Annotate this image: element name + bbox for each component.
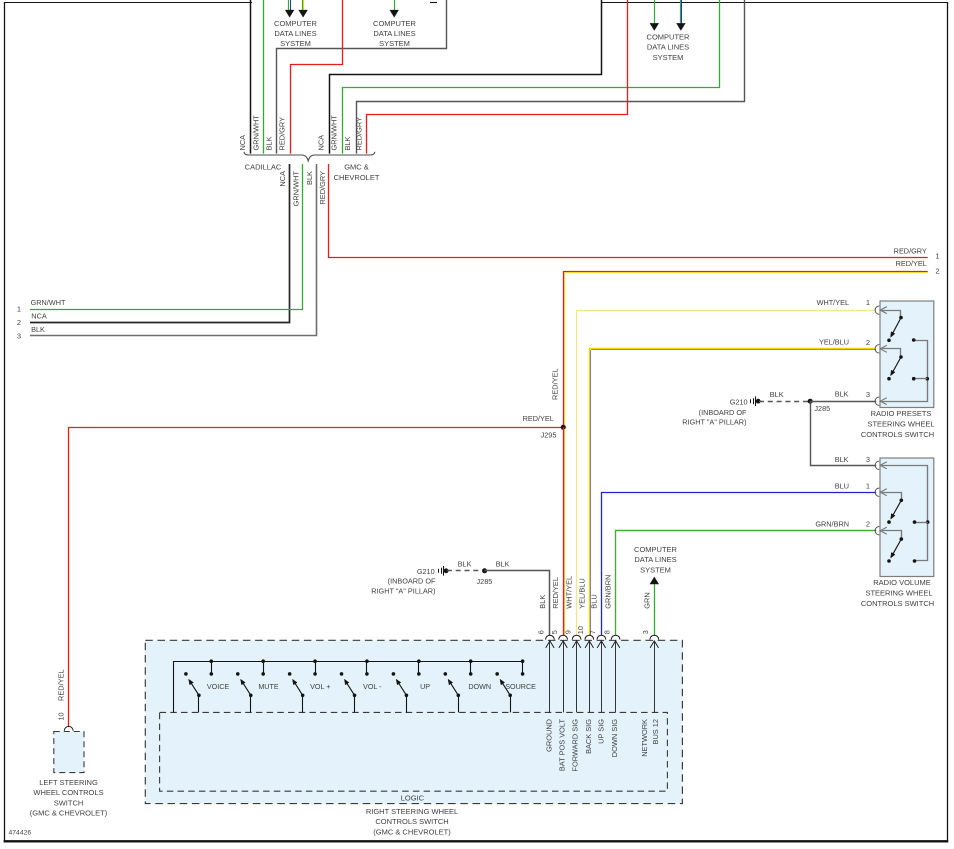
label BAT POS VOLT xyxy=(557,719,566,772)
svg-text:GROUND: GROUND xyxy=(544,719,553,752)
junction J285 left xyxy=(476,568,492,586)
node computer data lines system (bottom) label xyxy=(634,545,678,574)
right steering wheel controls switch outer dashed box xyxy=(145,640,682,803)
svg-text:GMC &: GMC & xyxy=(344,163,369,172)
wire YEL/BLU xyxy=(590,349,877,636)
terminal pin 3 GRN xyxy=(650,635,659,712)
wire RED/YEL down to pin 5 xyxy=(564,427,565,635)
presets rail xyxy=(882,338,928,401)
svg-text:LOGIC: LOGIC xyxy=(401,793,425,802)
svg-text:VOICE: VOICE xyxy=(207,682,230,691)
svg-text:SYSTEM: SYSTEM xyxy=(653,53,684,62)
volume switch lever 1 xyxy=(891,500,902,519)
svg-text:MUTE: MUTE xyxy=(258,682,279,691)
label NCA cadillac xyxy=(238,135,247,151)
label right steering wheel controls switch xyxy=(366,807,458,837)
label DOWN xyxy=(468,682,491,691)
button switch DOWN xyxy=(444,659,473,712)
label FORWARD SIG xyxy=(571,719,580,772)
terminal presets pin 1 xyxy=(875,306,887,314)
svg-text:DATA LINES: DATA LINES xyxy=(647,43,689,52)
label BLK over dashed right xyxy=(770,390,784,399)
label left steering wheel controls switch xyxy=(30,778,108,818)
svg-text:COMPUTER: COMPUTER xyxy=(274,19,318,28)
button switch VOL - xyxy=(340,659,369,712)
label UP xyxy=(420,682,430,691)
pin 1 right RED/GRY xyxy=(894,246,940,260)
svg-text:RIGHT "A" PILLAR): RIGHT "A" PILLAR) xyxy=(371,587,435,596)
label RED/YEL vertical xyxy=(551,368,560,400)
pin number 9 xyxy=(563,630,572,634)
svg-text:6: 6 xyxy=(537,630,546,634)
arrow 5 down xyxy=(676,23,685,31)
svg-text:2: 2 xyxy=(866,338,870,347)
svg-text:CONTROLS SWITCH: CONTROLS SWITCH xyxy=(375,817,448,826)
terminal pin 7 BLU xyxy=(597,635,606,712)
label inboard right xyxy=(682,408,747,426)
pin number 7 xyxy=(588,630,597,634)
svg-text:DOWN: DOWN xyxy=(468,682,491,691)
arrow 3 down xyxy=(390,10,399,18)
presets switch lever 1 xyxy=(891,318,901,338)
brace cadillac/gmc merge xyxy=(244,152,375,161)
wire GRN/WHT to left pin 1 xyxy=(30,164,303,310)
svg-text:(INBOARD OF: (INBOARD OF xyxy=(699,408,747,417)
wire BLK dashed to J285 left xyxy=(447,570,485,572)
switch U2 radio volume box xyxy=(880,458,934,577)
svg-text:BLK: BLK xyxy=(343,136,352,150)
label GROUND xyxy=(544,719,553,752)
label NCA below brace xyxy=(278,171,287,187)
svg-text:3: 3 xyxy=(17,331,21,340)
svg-text:10: 10 xyxy=(56,712,65,720)
wire NCA cadillac xyxy=(250,0,252,154)
svg-text:SYSTEM: SYSTEM xyxy=(280,39,311,48)
label GRN/WHT gmc xyxy=(330,115,339,151)
wire RED/GRY gmc xyxy=(367,0,628,154)
wire GRN/BRN xyxy=(616,531,877,636)
svg-text:WHEEL CONTROLS: WHEEL CONTROLS xyxy=(33,788,103,797)
label YEL/BLU pin 2 xyxy=(819,337,870,347)
presets switch lever 2 xyxy=(891,357,901,376)
label LOGIC xyxy=(401,793,425,802)
svg-text:BLU: BLU xyxy=(590,594,599,608)
label BLU pin 7 xyxy=(590,594,599,608)
wire BLK J285 to pin 6 xyxy=(485,571,550,636)
svg-text:COMPUTER: COMPUTER xyxy=(647,32,691,41)
wire BLU xyxy=(602,493,877,636)
svg-text:RED/GRY: RED/GRY xyxy=(894,246,927,255)
wire RED/GRY to right pin 1 xyxy=(329,164,928,258)
label RED/YEL pin 5 xyxy=(551,577,560,609)
svg-text:STEERING WHEEL: STEERING WHEEL xyxy=(865,588,932,597)
label RED/GRY cadillac xyxy=(278,117,287,151)
label BACK SIG xyxy=(584,719,593,754)
label BLU pin 1 xyxy=(835,481,870,490)
svg-text:J295: J295 xyxy=(541,430,557,439)
wire RED/YEL right pin 2 xyxy=(564,272,928,428)
label VOL + xyxy=(310,682,330,691)
label NETWORK xyxy=(640,719,649,757)
wire BLK J285 to volume pin 3 xyxy=(811,401,877,465)
svg-text:BLK: BLK xyxy=(770,390,784,399)
pin 3 left xyxy=(17,325,45,341)
pin number 6 xyxy=(537,630,546,634)
presets rail junction xyxy=(912,377,929,381)
label RED/GRY gmc xyxy=(355,117,364,151)
arrow 1 down xyxy=(285,10,294,18)
pin 2 right RED/YEL xyxy=(565,259,940,427)
svg-text:BLK: BLK xyxy=(496,560,510,569)
wire BLK gmc xyxy=(357,0,745,154)
label BLK volume pin 3 xyxy=(835,455,870,464)
label GMC & xyxy=(344,163,369,172)
label UP SIG xyxy=(597,719,606,744)
wire NCA to left pin 2 xyxy=(30,164,290,323)
svg-text:BLU: BLU xyxy=(835,481,849,490)
svg-text:G210: G210 xyxy=(417,567,435,576)
label DOWN SIG xyxy=(610,719,619,757)
svg-text:(GMC & CHEVROLET): (GMC & CHEVROLET) xyxy=(30,809,108,818)
presets pin1 internal wire xyxy=(882,311,903,320)
svg-text:RED/GRY: RED/GRY xyxy=(355,117,364,151)
label BLK over J285 wire xyxy=(496,560,510,569)
label inboard left xyxy=(371,577,436,596)
svg-text:DATA LINES: DATA LINES xyxy=(373,29,415,38)
label radio volume switch xyxy=(861,578,934,608)
volume rail junction xyxy=(913,520,930,524)
svg-text:GRN/WHT: GRN/WHT xyxy=(31,298,66,307)
wire NCA gmc xyxy=(330,0,602,154)
pin 10 left switch xyxy=(56,712,65,720)
terminal pin 5 RED/YEL xyxy=(559,635,568,712)
wire GRN to pin 3 xyxy=(654,584,656,635)
wire RED/GRY cadillac xyxy=(291,0,343,154)
button switch VOICE xyxy=(184,659,213,712)
svg-text:RADIO VOLUME: RADIO VOLUME xyxy=(873,578,931,587)
volume contact dot 1 xyxy=(887,520,891,524)
svg-text:1: 1 xyxy=(866,298,870,307)
svg-text:SYSTEM: SYSTEM xyxy=(640,565,671,574)
button switch VOL + xyxy=(288,659,317,712)
svg-text:BLK: BLK xyxy=(265,136,274,150)
svg-text:RED/YEL: RED/YEL xyxy=(551,368,560,400)
node computer data lines system (cadillac) label xyxy=(274,19,318,48)
wire into arrow 1 (grn+blu) xyxy=(289,0,291,10)
presets contact dot 1 xyxy=(887,339,891,343)
wire WHT/YEL xyxy=(577,311,877,636)
svg-text:BLK: BLK xyxy=(458,560,472,569)
wire into arrow 4 (grn) xyxy=(654,0,656,23)
label BLK gmc xyxy=(343,136,352,150)
wire BLK cadillac xyxy=(277,0,447,154)
terminal presets pin 2 xyxy=(875,345,887,353)
svg-text:1: 1 xyxy=(17,305,21,314)
svg-text:(INBOARD OF: (INBOARD OF xyxy=(388,577,436,586)
svg-text:VOL +: VOL + xyxy=(310,682,330,691)
svg-text:G210: G210 xyxy=(730,397,748,406)
label YEL/BLU pin 10 xyxy=(577,578,586,608)
button switch SOURCE xyxy=(495,659,524,712)
wire RED/YEL from left switch xyxy=(69,428,564,727)
svg-text:RED/YEL: RED/YEL xyxy=(56,669,65,701)
label RED/GRY below brace xyxy=(318,171,327,205)
terminal pin 6 BLK xyxy=(546,635,555,712)
svg-text:LEFT STEERING: LEFT STEERING xyxy=(39,778,98,787)
label MUTE xyxy=(258,682,279,691)
svg-text:CADILLAC: CADILLAC xyxy=(245,163,282,172)
wire into arrow 2 (grn+yel) xyxy=(303,0,304,10)
svg-text:2: 2 xyxy=(935,266,939,275)
svg-text:CONTROLS SWITCH: CONTROLS SWITCH xyxy=(861,430,934,439)
svg-text:GRN/WHT: GRN/WHT xyxy=(330,115,339,151)
label BLK presets pin 3 xyxy=(835,390,870,399)
svg-text:BLK: BLK xyxy=(835,390,849,399)
svg-text:YEL/BLU: YEL/BLU xyxy=(577,578,586,608)
wire BLK to left pin 3 xyxy=(30,164,317,336)
button switch MUTE xyxy=(236,659,265,712)
svg-text:5: 5 xyxy=(550,630,559,634)
label GRN pin 3 xyxy=(642,592,651,608)
svg-text:NCA: NCA xyxy=(317,135,326,151)
svg-text:(GMC & CHEVROLET): (GMC & CHEVROLET) xyxy=(373,827,451,836)
wire GRN/WHT cadillac xyxy=(263,0,265,154)
svg-text:DATA LINES: DATA LINES xyxy=(634,555,676,564)
presets contact dot 2 xyxy=(887,377,891,381)
svg-text:RED/YEL: RED/YEL xyxy=(896,259,927,268)
node computer data lines system (top right) label xyxy=(647,32,691,61)
label CHEVROLET xyxy=(334,173,380,182)
pin 2 left xyxy=(17,311,47,327)
volume pin1 internal wire xyxy=(882,493,903,503)
terminal volume pin 1 xyxy=(875,488,887,496)
svg-text:GRN: GRN xyxy=(642,592,651,608)
pin 1 left xyxy=(17,298,66,314)
svg-text:SWITCH: SWITCH xyxy=(54,798,84,807)
svg-text:BLK: BLK xyxy=(31,325,45,334)
svg-text:WHT/YEL: WHT/YEL xyxy=(565,576,574,609)
svg-text:SOURCE: SOURCE xyxy=(505,682,536,691)
node computer data lines system (gmc left) label xyxy=(373,19,417,48)
label WHT/YEL pin 9 xyxy=(565,576,574,609)
ground G210 right xyxy=(730,396,761,406)
svg-text:1: 1 xyxy=(866,482,870,491)
label BUS 12 xyxy=(651,719,660,744)
label NCA gmc xyxy=(317,135,326,151)
svg-text:CHEVROLET: CHEVROLET xyxy=(334,173,380,182)
svg-text:UP: UP xyxy=(420,682,430,691)
label BLK pin 6 xyxy=(538,595,547,609)
svg-text:DOWN SIG: DOWN SIG xyxy=(610,719,619,757)
svg-text:NETWORK: NETWORK xyxy=(640,719,649,757)
svg-text:RED/GRY: RED/GRY xyxy=(318,171,327,205)
pin number 5 xyxy=(550,630,559,634)
logic inner dashed box xyxy=(160,712,668,791)
label RED/YEL left xyxy=(56,669,65,701)
pin number 3 xyxy=(641,630,650,634)
label BLK cadillac xyxy=(265,136,274,150)
terminal presets pin 3 xyxy=(875,397,887,405)
arrow 2 down xyxy=(298,10,307,18)
svg-text:BLK: BLK xyxy=(538,595,547,609)
svg-text:WHT/YEL: WHT/YEL xyxy=(817,298,849,307)
svg-text:9: 9 xyxy=(563,630,572,634)
svg-text:2: 2 xyxy=(17,318,21,327)
label CADILLAC xyxy=(245,163,282,172)
wire into arrow 3 (grn) xyxy=(394,0,396,10)
volume pin3 internal wire xyxy=(882,466,928,563)
svg-text:RIGHT STEERING WHEEL: RIGHT STEERING WHEEL xyxy=(366,807,458,816)
junction J295 xyxy=(523,414,566,439)
label GRN/BRN pin 2 xyxy=(815,519,870,528)
svg-text:RADIO PRESETS: RADIO PRESETS xyxy=(871,409,932,418)
label SOURCE xyxy=(505,682,536,691)
pin number 10 xyxy=(576,626,585,634)
presets pin2 internal wire xyxy=(882,349,903,359)
arrow 4 down xyxy=(650,23,659,31)
wire GRN/WHT gmc xyxy=(343,0,720,154)
switch U1 radio presets box xyxy=(880,301,934,408)
svg-text:2: 2 xyxy=(866,520,870,529)
svg-text:NCA: NCA xyxy=(31,311,47,320)
svg-text:NCA: NCA xyxy=(238,135,247,151)
svg-text:J285: J285 xyxy=(476,577,492,586)
terminal volume pin 2 xyxy=(875,527,887,535)
label VOICE xyxy=(207,682,230,691)
label radio presets switch xyxy=(861,409,935,439)
label WHT/YEL pin 1 xyxy=(817,298,870,307)
svg-text:SYSTEM: SYSTEM xyxy=(379,39,410,48)
wire BLK J285 to presets pin 3 xyxy=(810,401,876,403)
svg-text:UP SIG: UP SIG xyxy=(597,719,606,744)
svg-text:BLK: BLK xyxy=(305,171,314,185)
svg-text:FORWARD SIG: FORWARD SIG xyxy=(571,719,580,772)
svg-text:8: 8 xyxy=(602,630,611,634)
svg-text:COMPUTER: COMPUTER xyxy=(634,545,678,554)
volume switch lever 2 xyxy=(891,539,902,558)
terminal pin 8 GRN/BRN xyxy=(611,635,620,712)
label GRN/BRN pin 8 xyxy=(604,575,613,609)
svg-text:NCA: NCA xyxy=(278,171,287,187)
svg-text:GRN/WHT: GRN/WHT xyxy=(252,115,261,151)
svg-text:DATA LINES: DATA LINES xyxy=(274,29,316,38)
svg-text:CONTROLS SWITCH: CONTROLS SWITCH xyxy=(861,599,934,608)
label BLK below brace xyxy=(305,171,314,185)
svg-text:YEL/BLU: YEL/BLU xyxy=(819,337,849,346)
svg-text:RIGHT "A" PILLAR): RIGHT "A" PILLAR) xyxy=(682,417,746,426)
svg-text:RED/GRY: RED/GRY xyxy=(278,117,287,151)
svg-text:3: 3 xyxy=(866,455,870,464)
svg-text:3: 3 xyxy=(641,630,650,634)
volume pin2 internal wire xyxy=(882,531,903,541)
terminal volume pin 3 xyxy=(875,461,887,469)
svg-text:GRN/BRN: GRN/BRN xyxy=(815,519,849,528)
terminal left switch xyxy=(64,726,73,730)
wire into arrow 5 (grn+blu) xyxy=(681,0,682,23)
button bus wire xyxy=(173,661,523,712)
svg-text:GRN/BRN: GRN/BRN xyxy=(604,575,613,609)
label GRN/WHT cadillac xyxy=(252,115,261,151)
button switch UP xyxy=(392,659,421,712)
arrow up to data lines xyxy=(650,577,659,585)
wire BLK dashed to J285 right xyxy=(759,401,810,403)
junction J285 right xyxy=(808,399,831,413)
svg-text:RED/YEL: RED/YEL xyxy=(523,414,554,423)
svg-text:BACK SIG: BACK SIG xyxy=(584,719,593,754)
svg-text:7: 7 xyxy=(588,630,597,634)
label BLK over dashed left xyxy=(458,560,472,569)
terminal pin 9 WHT/YEL xyxy=(572,635,581,712)
svg-text:10: 10 xyxy=(576,626,585,634)
ground G210 left xyxy=(417,566,449,576)
svg-text:VOL -: VOL - xyxy=(363,682,382,691)
svg-text:474426: 474426 xyxy=(9,830,32,837)
volume contact dot 2 xyxy=(887,559,891,563)
svg-text:1: 1 xyxy=(935,252,939,261)
svg-text:RED/YEL: RED/YEL xyxy=(551,577,560,609)
svg-text:BAT POS VOLT: BAT POS VOLT xyxy=(557,719,566,772)
label VOL - xyxy=(363,682,382,691)
svg-text:GRN/WHT: GRN/WHT xyxy=(292,171,301,207)
svg-text:COMPUTER: COMPUTER xyxy=(373,19,417,28)
svg-text:3: 3 xyxy=(866,390,870,399)
pin number 8 xyxy=(602,630,611,634)
svg-text:BUS 12: BUS 12 xyxy=(651,719,660,744)
left steering wheel controls switch box xyxy=(54,732,84,773)
label GRN/WHT below brace xyxy=(292,171,301,207)
svg-text:J285: J285 xyxy=(814,404,830,413)
terminal pin 10 YEL/BLU xyxy=(585,635,594,712)
svg-text:BLK: BLK xyxy=(835,455,849,464)
svg-text:STEERING WHEEL: STEERING WHEEL xyxy=(867,420,934,429)
